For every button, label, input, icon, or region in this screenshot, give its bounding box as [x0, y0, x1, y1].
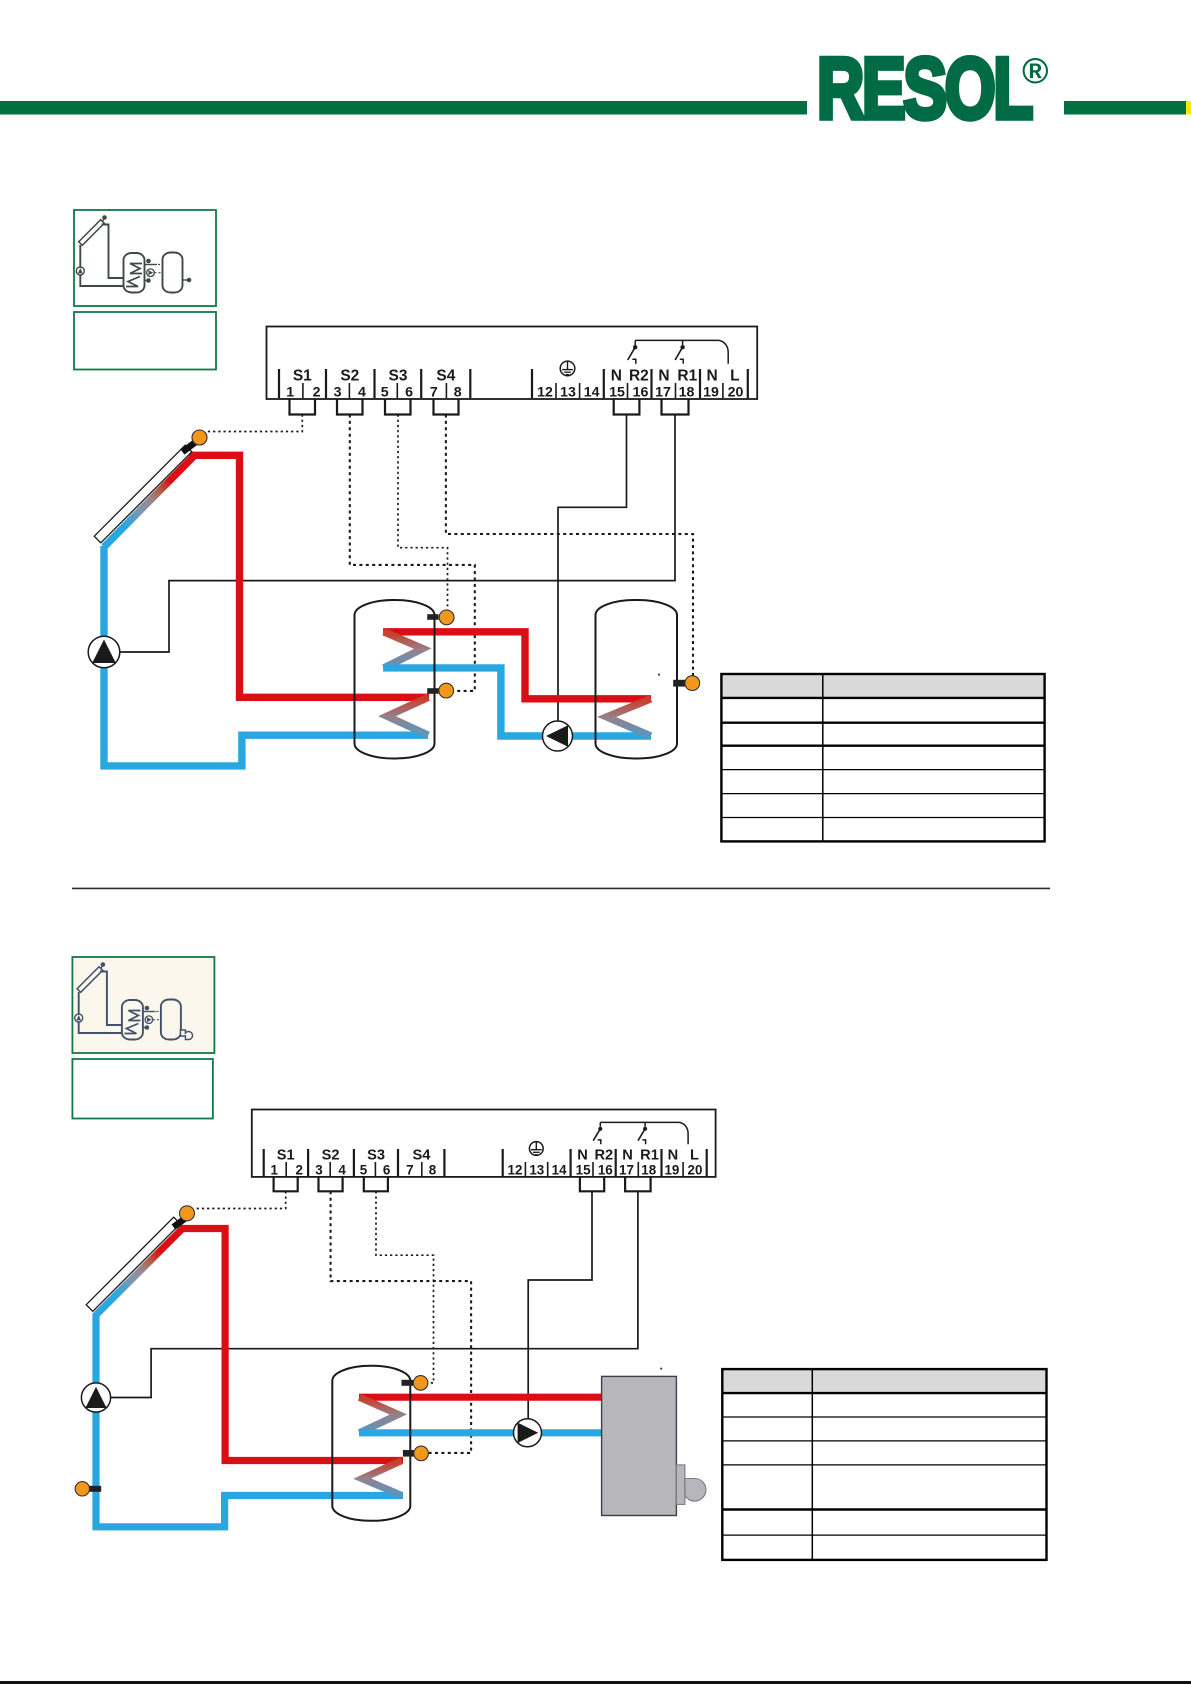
store2 sensor S4 bulb	[685, 676, 700, 691]
svg-text:4: 4	[338, 1163, 346, 1178]
green header bar left segment	[0, 101, 807, 115]
store1 lower heat exchanger coil zigzag	[387, 697, 428, 735]
small print speck near store2	[658, 674, 660, 676]
svg-text:17: 17	[655, 385, 671, 401]
solar pump P1 (circle with up triangle)	[88, 636, 120, 668]
svg-text:12: 12	[537, 385, 553, 401]
collector 2 absorber gradient pipe	[94, 1226, 186, 1318]
svg-text:N: N	[577, 1148, 588, 1164]
svg-text:19: 19	[664, 1163, 679, 1178]
svg-text:R1: R1	[640, 1148, 659, 1164]
wire sensor S3 to store upper sensor (dotted, system 2)	[376, 1191, 434, 1383]
collector 2 panel outline	[86, 1217, 180, 1311]
solar flow pipe (hot, red) collector to store coil (system 2)	[180, 1229, 403, 1461]
auxiliary boiler body	[602, 1376, 677, 1515]
controller U2-bottom terminal numbers 1-8 12-20	[270, 1163, 702, 1178]
footer rule at page bottom	[0, 1681, 1191, 1684]
pipe store1 upper coil to store2 coil (hot, red)	[383, 632, 651, 699]
wire relay R1 to solar pump	[121, 415, 676, 653]
wire relay R2 to transfer pump	[558, 415, 627, 723]
solar flow pipe (hot, red) collector to store1 lower coil	[189, 455, 429, 697]
collector 1 sensor pocket mark	[183, 443, 196, 453]
svg-text:18: 18	[641, 1163, 656, 1178]
legend table 1	[721, 674, 1044, 841]
svg-text:R2: R2	[594, 1148, 613, 1164]
controller U1-top internal relay contact wiring to L	[628, 340, 729, 363]
store upper sensor S3 bulb (system 2)	[413, 1376, 428, 1391]
transfer pump P2 (circle with left triangle)	[543, 721, 573, 751]
green header bar right segment	[1064, 101, 1186, 115]
controller U2-bottom protective earth symbol above terminal 13	[529, 1142, 543, 1156]
wire relay R1 to solar pump (system 2)	[111, 1191, 638, 1397]
store1 upper sensor S3 bulb	[439, 610, 454, 625]
svg-text:18: 18	[679, 385, 695, 401]
wire sensor S3 to store1 upper sensor (dotted)	[398, 415, 448, 611]
store1 lower sensor S2 bulb	[439, 683, 454, 698]
pipe store upper coil to boiler (hot, red, system 2)	[359, 1394, 602, 1401]
svg-text:S2: S2	[340, 367, 359, 384]
svg-text:5: 5	[381, 385, 389, 401]
controller U1-top sensor terminal jumpers below terminals	[290, 399, 689, 415]
pipe boiler to store upper coil (cold, blue, system 2)	[359, 1429, 602, 1436]
svg-text:3: 3	[315, 1163, 322, 1178]
collector2 sensor S1 bulb	[180, 1206, 195, 1221]
hydraulic scheme thumbnail box system 1	[74, 210, 216, 306]
svg-text:2: 2	[313, 385, 321, 401]
svg-text:S3: S3	[367, 1148, 385, 1164]
solar pump P1 (system 2)	[81, 1383, 110, 1412]
svg-text:R2: R2	[629, 367, 649, 384]
svg-text:S4: S4	[412, 1148, 431, 1164]
svg-text:S1: S1	[277, 1148, 295, 1164]
svg-text:N: N	[706, 367, 717, 384]
svg-text:N: N	[658, 367, 669, 384]
wire sensor S4 to store2 sensor (dotted)	[446, 415, 693, 677]
store upper heat exchanger coil zigzag (system 2)	[359, 1397, 398, 1433]
svg-text:20: 20	[688, 1163, 703, 1178]
svg-text:16: 16	[598, 1163, 613, 1178]
wire sensor S2 to store lower sensor (dotted, system 2)	[331, 1191, 472, 1453]
svg-text:17: 17	[619, 1163, 634, 1178]
controller U2-bottom housing	[252, 1110, 716, 1177]
store2 sensor S4 stub	[673, 680, 686, 687]
svg-text:14: 14	[552, 1163, 567, 1178]
collector1 sensor S1 bulb	[192, 430, 207, 445]
svg-text:S4: S4	[436, 367, 455, 384]
svg-text:7: 7	[430, 385, 438, 401]
svg-text:S1: S1	[293, 367, 312, 384]
empty caption box system 1	[74, 312, 216, 370]
svg-text:13: 13	[560, 385, 576, 401]
yellow bar tip	[1186, 101, 1191, 115]
solar return pipe (cold, blue) store1 to collector	[104, 546, 428, 766]
controller U1-top terminal name labels S1 S2 S3 S4 N R2 N R1 N L	[293, 367, 740, 384]
svg-text:12: 12	[508, 1163, 523, 1178]
svg-text:S3: S3	[389, 367, 408, 384]
pipe store2 coil to store1 upper coil (cold, blue)	[383, 668, 651, 736]
store 2 tank outline	[596, 600, 678, 759]
solar return pipe (cold, blue) store to collector (system 2)	[96, 1313, 403, 1527]
svg-text:2: 2	[295, 1163, 302, 1178]
collector 1 absorber gradient pipe	[101, 453, 196, 549]
controller U2-bottom terminal name labels S1 S2 S3 S4 N R2 N R1 N L	[277, 1148, 699, 1164]
svg-text:L: L	[690, 1148, 699, 1164]
svg-text:N: N	[611, 367, 622, 384]
store tank outline (system 2)	[332, 1366, 410, 1521]
wire sensor S2 to store1 lower sensor (dotted)	[350, 415, 475, 691]
controller U1-top protective earth symbol above terminal 13	[560, 361, 575, 376]
svg-text:N: N	[622, 1148, 633, 1164]
svg-text:1: 1	[286, 385, 294, 401]
svg-text:1: 1	[270, 1163, 278, 1178]
store lower heat exchanger coil zigzag (system 2)	[362, 1461, 402, 1496]
svg-text:7: 7	[406, 1163, 413, 1178]
store1 upper sensor S3 stub	[427, 614, 438, 620]
svg-text:®: ®	[1022, 50, 1049, 91]
svg-text:RESOL: RESOL	[817, 41, 1031, 137]
horizontal section divider line	[72, 887, 1050, 889]
svg-text:6: 6	[383, 1163, 390, 1178]
empty caption box system 2	[72, 1059, 213, 1119]
svg-text:19: 19	[703, 385, 719, 401]
svg-text:3: 3	[334, 385, 342, 401]
hydraulic scheme thumbnail box system 2	[72, 957, 214, 1053]
controller U2-bottom sensor terminal jumpers below terminals	[274, 1177, 651, 1191]
boiler burner mount	[676, 1465, 685, 1505]
svg-text:14: 14	[584, 385, 600, 401]
store1 lower sensor S2 stub	[427, 688, 438, 694]
svg-text:15: 15	[576, 1163, 591, 1178]
collector 1 panel outline	[94, 445, 192, 543]
small print speck above boiler	[660, 1368, 662, 1370]
store upper sensor S3 stub (system 2)	[402, 1380, 414, 1386]
svg-text:S2: S2	[322, 1148, 340, 1164]
svg-text:8: 8	[429, 1163, 437, 1178]
svg-text:R1: R1	[677, 367, 697, 384]
svg-text:13: 13	[529, 1163, 544, 1178]
controller U2-bottom internal relay contact wiring to L	[593, 1122, 688, 1144]
loading pump P2 (system 2, right triangle)	[514, 1419, 542, 1447]
svg-text:20: 20	[728, 385, 744, 401]
boiler burner blob	[685, 1479, 706, 1502]
controller U2-bottom terminal group separators	[264, 1149, 707, 1176]
wire sensor S1 collector (dotted)	[207, 415, 302, 432]
controller U1-top terminal group separators	[279, 369, 748, 398]
svg-text:N: N	[668, 1148, 679, 1164]
store2 heat exchanger coil zigzag	[607, 699, 651, 736]
store 1 tank outline	[355, 600, 435, 759]
svg-text:15: 15	[609, 385, 625, 401]
store lower sensor S2 stub (system 2)	[403, 1450, 414, 1457]
controller U1-top terminal numbers 1-8 12-20	[286, 385, 743, 401]
svg-text:8: 8	[454, 385, 462, 401]
store1 upper heat exchanger coil zigzag	[384, 632, 423, 668]
svg-text:6: 6	[405, 385, 413, 401]
svg-text:5: 5	[360, 1163, 368, 1178]
controller U1-top housing	[267, 327, 758, 400]
wire relay R2 to loading pump (system 2)	[528, 1191, 592, 1420]
legend table 2	[722, 1369, 1046, 1560]
return pipe sensor stub (system 2)	[89, 1486, 101, 1492]
svg-text:4: 4	[358, 385, 366, 401]
store lower sensor S2 bulb (system 2)	[414, 1446, 429, 1461]
svg-text:L: L	[730, 367, 739, 384]
svg-text:16: 16	[633, 385, 649, 401]
return pipe sensor bulb (system 2)	[75, 1482, 89, 1496]
collector 2 sensor pocket mark	[174, 1219, 186, 1228]
wire sensor S1 collector (dotted, system 2)	[194, 1191, 286, 1208]
